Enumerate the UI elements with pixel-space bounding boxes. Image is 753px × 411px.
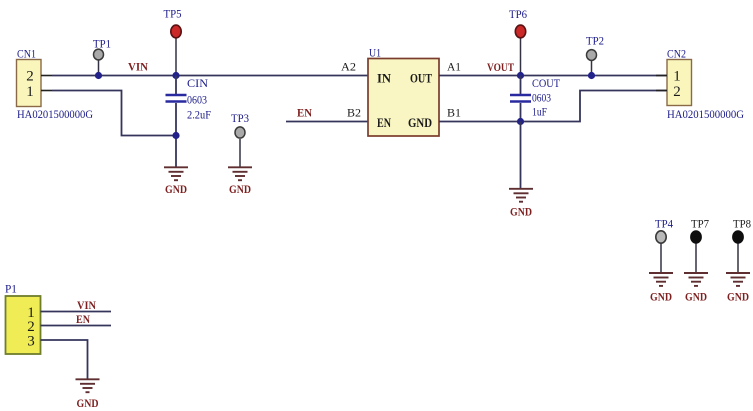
svg-text:HA0201500000G: HA0201500000G — [667, 107, 744, 121]
wire: U1 GND pin B1 to vertical riser — [439, 91, 667, 122]
svg-text:EN: EN — [377, 115, 391, 130]
svg-text:3: 3 — [27, 334, 35, 350]
svg-text:TP7: TP7 — [691, 217, 709, 231]
test point TP4 — [655, 217, 673, 273]
junction at TP1 / VIN wire — [95, 72, 102, 79]
svg-text:TP4: TP4 — [655, 217, 673, 231]
test point TP8 — [733, 217, 751, 273]
svg-text:IN: IN — [377, 71, 392, 86]
svg-text:GND: GND — [650, 290, 672, 304]
svg-text:GND: GND — [77, 396, 99, 410]
wire VIN net: CN1 pin2 to U1 A2 — [52, 75, 368, 77]
CN1 pin 2 stub — [41, 75, 52, 77]
svg-text:A2: A2 — [341, 60, 356, 74]
svg-text:COUT: COUT — [532, 76, 561, 90]
wire: COUT bottom to ground — [520, 122, 522, 189]
svg-text:CN1: CN1 — [17, 47, 36, 61]
svg-text:2: 2 — [26, 69, 34, 85]
ground under TP3 — [228, 167, 252, 196]
svg-text:GND: GND — [229, 182, 251, 196]
junction at VIN / CIN / TP5 — [172, 72, 179, 79]
wire EN net to U1 B2 — [286, 121, 368, 123]
ground under P1 pin3 — [76, 379, 100, 410]
capacitor CIN — [166, 76, 212, 167]
svg-text:VIN: VIN — [128, 60, 148, 74]
svg-text:GND: GND — [510, 205, 532, 219]
svg-text:CIN: CIN — [187, 76, 208, 90]
svg-text:EN: EN — [297, 106, 312, 120]
svg-text:CN2: CN2 — [667, 47, 686, 61]
capacitor COUT — [510, 76, 561, 122]
junction at COUT bottom / U1 B1 wire — [517, 118, 524, 125]
svg-text:TP1: TP1 — [93, 37, 111, 51]
svg-text:2: 2 — [673, 84, 681, 100]
svg-text:GND: GND — [165, 182, 187, 196]
test point TP5 — [164, 7, 182, 76]
svg-text:GND: GND — [408, 115, 432, 130]
svg-text:0603: 0603 — [187, 93, 207, 107]
svg-text:EN: EN — [76, 312, 90, 326]
svg-text:TP3: TP3 — [231, 111, 249, 125]
CN1 pin 1 stub — [41, 90, 52, 92]
ground under TP7 — [684, 273, 708, 304]
test point TP2 — [586, 34, 604, 76]
svg-text:GND: GND — [685, 290, 707, 304]
test point TP1 — [93, 37, 111, 76]
svg-text:1: 1 — [26, 84, 34, 100]
svg-text:B2: B2 — [347, 106, 361, 120]
svg-text:B1: B1 — [447, 106, 461, 120]
wire VOUT net: U1 OUT to CN2 pin1 — [439, 75, 667, 77]
P1 pin 3 wire to ground — [41, 340, 88, 379]
svg-text:1uF: 1uF — [532, 105, 547, 119]
svg-text:0603: 0603 — [532, 91, 551, 105]
svg-text:TP6: TP6 — [509, 7, 527, 21]
svg-text:HA0201500000G: HA0201500000G — [17, 107, 93, 121]
connector CN1 — [17, 47, 94, 122]
test point TP7 — [691, 217, 709, 273]
ground under TP8 — [726, 273, 750, 304]
svg-text:VOUT: VOUT — [487, 60, 514, 74]
CN2 pin 2 stub — [656, 90, 667, 92]
test point TP6 — [509, 7, 527, 76]
svg-text:TP2: TP2 — [586, 34, 604, 48]
connector P1 — [5, 282, 41, 355]
P1 pin 1 wire (VIN) — [41, 311, 112, 313]
connector CN2 — [667, 47, 744, 122]
junction at TP2 / VOUT wire — [588, 72, 595, 79]
ground under COUT — [509, 189, 533, 219]
test point TP3 — [231, 111, 249, 167]
svg-text:A1: A1 — [447, 60, 461, 74]
svg-text:TP5: TP5 — [164, 7, 182, 21]
junction at CIN bottom / CN1 pin1 wire — [172, 132, 179, 139]
svg-text:VIN: VIN — [77, 298, 96, 312]
svg-text:TP8: TP8 — [733, 217, 751, 231]
svg-text:P1: P1 — [5, 282, 17, 296]
svg-text:OUT: OUT — [410, 71, 432, 86]
svg-text:GND: GND — [727, 290, 749, 304]
wire: CN1 pin1 horizontal — [52, 91, 176, 136]
P1 pin 2 wire (EN) — [41, 325, 112, 327]
op-amp / regulator U1 — [368, 46, 439, 137]
svg-text:U1: U1 — [369, 46, 381, 60]
ground under TP4 — [649, 273, 673, 304]
ground under CIN — [164, 167, 188, 196]
CN2 pin 1 stub — [656, 75, 667, 77]
svg-text:1: 1 — [673, 69, 681, 85]
svg-text:2.2uF: 2.2uF — [187, 108, 211, 122]
junction at VOUT / COUT / TP6 — [517, 72, 524, 79]
